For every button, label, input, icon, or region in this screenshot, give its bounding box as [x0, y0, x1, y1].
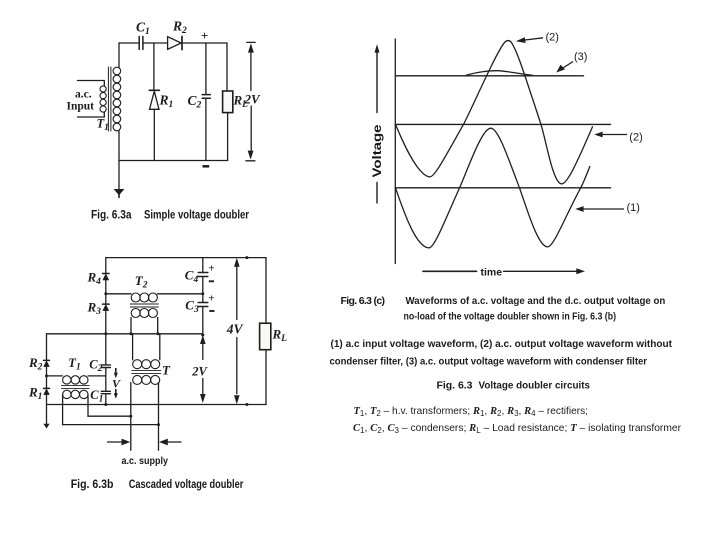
- svg-text:R4: R4: [87, 269, 102, 287]
- transformer T2 secondary: [131, 309, 157, 318]
- svg-text:+: +: [208, 262, 214, 274]
- axis voltage (vertical): [394, 39, 396, 264]
- svg-text:(1): (1): [627, 202, 640, 214]
- svg-text:2V: 2V: [191, 365, 208, 379]
- wire top rail: [106, 257, 266, 259]
- svg-text:Input: Input: [67, 101, 95, 113]
- transformer T secondary: [133, 375, 160, 384]
- svg-text:+: +: [208, 292, 214, 304]
- curve 3 ripple: [466, 71, 533, 76]
- wire T1 secondary left lead: [62, 394, 64, 424]
- svg-text:R2: R2: [172, 19, 187, 37]
- axis arrow voltage: [376, 52, 378, 113]
- svg-text:a.c. supply: a.c. supply: [122, 455, 169, 467]
- svg-text:(2): (2): [546, 32, 559, 44]
- svg-text:Voltage doubler circuits: Voltage doubler circuits: [479, 380, 591, 392]
- wire secondary bottom lead: [118, 131, 120, 161]
- rectifier R2 (diode): [168, 37, 182, 50]
- svg-text:Simple voltage doubler: Simple voltage doubler: [144, 210, 249, 222]
- svg-text:R1: R1: [28, 384, 42, 402]
- transformer T1 core: [108, 67, 111, 131]
- time axis arrows: [423, 270, 477, 272]
- voltage dimension 2V: [202, 344, 204, 360]
- capacitor C4 column: [202, 258, 204, 273]
- curve 2 output waveform: [396, 41, 593, 184]
- wire row2 (T1 sec right to supply): [88, 415, 131, 417]
- a.c. supply arrows: [108, 441, 123, 443]
- arrow to curve 2 end: [602, 134, 628, 136]
- arrow end of left column: [44, 424, 49, 428]
- capacitor C1: [101, 391, 110, 393]
- wire left column upper: [105, 258, 107, 274]
- wire left column vL: [46, 334, 48, 361]
- arrowhead time axis: [576, 268, 585, 274]
- voltage dimension arrow 2V: [246, 42, 255, 160]
- svg-text:V: V: [112, 377, 121, 391]
- rectifier R3: [103, 303, 110, 305]
- svg-text:T: T: [162, 363, 171, 378]
- node - (negative output): [203, 165, 210, 168]
- svg-text:C2: C2: [188, 93, 202, 111]
- svg-text:C3: C3: [185, 297, 199, 315]
- level line (1): [395, 187, 610, 189]
- wire secondary top lead: [118, 43, 120, 68]
- svg-text:no-load of the voltage doubler: no-load of the voltage doubler shown in …: [404, 312, 617, 323]
- arrow to curve 3: [563, 62, 573, 69]
- wire T secondary leads / supply terminals: [131, 383, 159, 451]
- svg-text:RL: RL: [272, 327, 288, 345]
- svg-text:T1, T2 – h.v. transformers; R1: T1, T2 – h.v. transformers; R1, R2, R3, …: [354, 406, 589, 418]
- wire a.c. input bottom lead: [78, 112, 105, 117]
- rectifier R1: [44, 387, 50, 389]
- voltage dimension 4V: [236, 266, 238, 319]
- arrow to peak: [525, 38, 543, 40]
- junction dots: [45, 256, 248, 426]
- wire a.c. input top lead: [78, 81, 105, 86]
- svg-text:time: time: [481, 267, 503, 279]
- load resistor RL: [226, 43, 228, 91]
- load resistor RL: [265, 258, 267, 324]
- capacitor C2: [205, 43, 207, 94]
- svg-text:R1: R1: [159, 93, 174, 111]
- svg-text:C2: C2: [89, 358, 102, 375]
- svg-text:2V: 2V: [244, 92, 262, 107]
- svg-text:Voltage: Voltage: [370, 124, 384, 177]
- svg-text:condenser filter, (3) a.c. out: condenser filter, (3) a.c. output voltag…: [330, 356, 648, 367]
- svg-text:(2): (2): [629, 132, 642, 144]
- wire bottom rail: [47, 404, 267, 406]
- curve 1 input waveform: [396, 128, 590, 248]
- capacitor C3: [198, 303, 208, 307]
- svg-text:C1: C1: [90, 388, 103, 405]
- wire R2 to RL corner: [182, 42, 227, 44]
- transformer T1 secondary winding: [113, 67, 121, 131]
- transformer T1 primary: [63, 376, 88, 384]
- svg-text:C1: C1: [136, 20, 150, 38]
- rectifier R2: [44, 359, 50, 361]
- level line (2): [395, 123, 610, 125]
- svg-text:Fig. 6.3 (c): Fig. 6.3 (c): [341, 295, 386, 307]
- wire top rail segment left of C1: [119, 42, 139, 44]
- transformer T2 core: [130, 304, 158, 307]
- wire lower-left loop top: [47, 333, 203, 335]
- wire T1 secondary right lead: [87, 394, 89, 416]
- svg-text:Waveforms of a.c. voltage and: Waveforms of a.c. voltage and the d.c. o…: [406, 296, 666, 307]
- wire row3 (T1 sec left to supply): [63, 424, 159, 426]
- transformer T1 secondary: [63, 390, 88, 398]
- level line (3): [395, 75, 583, 77]
- svg-text:Cascaded voltage doubler: Cascaded voltage doubler: [129, 479, 244, 491]
- svg-text:+: +: [201, 28, 208, 43]
- svg-text:R3: R3: [87, 299, 102, 317]
- wire bottom rail: [119, 160, 228, 162]
- svg-text:(1) a.c input voltage waveform: (1) a.c input voltage waveform, (2) a.c.…: [331, 339, 673, 350]
- transformer T core: [132, 370, 161, 373]
- transformer T primary: [133, 360, 160, 369]
- wire to T1 primary: [47, 375, 63, 377]
- arrow to curve 1: [583, 208, 625, 210]
- ground: [118, 161, 120, 190]
- svg-text:Fig. 6.3a: Fig. 6.3a: [91, 210, 132, 222]
- svg-text:R2: R2: [28, 355, 43, 373]
- transformer T1 primary winding: [100, 86, 106, 112]
- svg-text:a.c.: a.c.: [75, 88, 92, 100]
- svg-text:Fig. 6.3b: Fig. 6.3b: [71, 479, 114, 491]
- capacitor C1: [139, 36, 143, 49]
- svg-text:(3): (3): [574, 51, 587, 63]
- svg-text:C1, C2, C3 – condensers; RL –: C1, C2, C3 – condensers; RL – Load resis…: [353, 423, 682, 435]
- capacitor C2: [101, 365, 110, 368]
- svg-text:T1: T1: [68, 356, 80, 373]
- arrowhead voltage axis: [375, 44, 380, 52]
- transformer T2 primary: [131, 293, 157, 302]
- svg-text:Fig. 6.3: Fig. 6.3: [437, 381, 473, 392]
- svg-text:C4: C4: [185, 267, 199, 285]
- rectifier R1 (diode): [153, 43, 155, 90]
- wire T primary leads: [133, 334, 160, 360]
- svg-text:T1: T1: [97, 117, 109, 134]
- svg-text:4V: 4V: [226, 322, 244, 337]
- svg-text:T2: T2: [135, 273, 148, 291]
- transformer T1 core: [62, 385, 90, 388]
- rectifier R4: [103, 273, 110, 275]
- wire mid (to T2 primary): [106, 293, 131, 295]
- wire C1 to R2: [143, 42, 168, 44]
- wire T2 secondary leads: [131, 318, 158, 334]
